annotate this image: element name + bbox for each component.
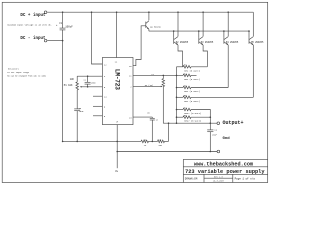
wire row1 left	[177, 66, 184, 68]
U1 left pin stubs	[93, 96, 102, 116]
svg-text:Resistors: Resistors	[8, 67, 20, 70]
svg-text:www.thebackshed.com: www.thebackshed.com	[194, 162, 253, 168]
svg-text:5K (1w): 5K (1w)	[145, 84, 153, 87]
wire ground line mid	[149, 141, 158, 143]
wire row3 left	[176, 87, 183, 89]
svg-text:10K: 10K	[70, 78, 75, 81]
capacitor C1	[56, 11, 73, 40]
wire Q4 emitter	[227, 45, 229, 88]
wire row6 right	[191, 116, 211, 118]
wire base bus	[149, 30, 249, 32]
svg-text:DC - input: DC - input	[20, 36, 46, 41]
wire row4 left	[176, 97, 183, 99]
U1 pin numbers	[104, 60, 132, 123]
svg-text:Q4 2N3055: Q4 2N3055	[226, 41, 239, 44]
svg-text:10uF: 10uF	[212, 134, 218, 137]
wire sense bus	[176, 67, 178, 124]
wire row4 right	[191, 96, 253, 98]
svg-text:0R1 (5 watt): 0R1 (5 watt)	[184, 78, 200, 81]
DC + input terminal	[20, 11, 46, 18]
capacitor C5	[133, 112, 158, 142]
svg-text:Maximum input voltage is 40 vo: Maximum input voltage is 40 volt dc.	[7, 23, 52, 26]
wire row5 right	[191, 110, 210, 124]
wire bottom rail	[117, 151, 217, 153]
resistor R3	[183, 64, 200, 73]
svg-text:0R47 (5 watt): 0R47 (5 watt)	[184, 112, 201, 115]
svg-text:0R1 (5 watt): 0R1 (5 watt)	[184, 69, 200, 72]
svg-text:100n: 100n	[91, 81, 97, 84]
capacitor C2	[84, 76, 97, 87]
sheet border frame	[2, 2, 268, 182]
transistor Q2 2N3055	[173, 11, 189, 45]
svg-text:Q1 BD139: Q1 BD139	[150, 26, 161, 29]
resistor R8	[183, 114, 201, 123]
resistor R4	[183, 72, 200, 81]
svg-text:Rev 1.0: Rev 1.0	[214, 175, 223, 178]
svg-text:DC + input: DC + input	[20, 13, 46, 18]
svg-text:R5 can be changed from 10K to: R5 can be changed from 10K to 100K	[7, 75, 46, 78]
svg-text:0R47 (5 watt): 0R47 (5 watt)	[184, 120, 201, 123]
potentiometer P1	[64, 76, 103, 90]
svg-text:100uF: 100uF	[65, 26, 73, 29]
wire ground line left	[62, 141, 141, 143]
wire output line	[163, 122, 217, 124]
svg-text:Gnd: Gnd	[223, 136, 231, 141]
svg-text:0R1 (5 watt): 0R1 (5 watt)	[184, 90, 200, 93]
svg-text:Q3 2N3055: Q3 2N3055	[201, 41, 214, 44]
svg-text:Output+: Output+	[223, 120, 244, 126]
wire row2 right	[191, 74, 197, 76]
svg-text:P1 10K: P1 10K	[64, 84, 73, 87]
op-amp regulator U1 LM-723	[102, 58, 133, 125]
wire pin12 riser	[116, 11, 118, 57]
terminal Output+	[217, 120, 244, 126]
terminal Gnd	[217, 136, 230, 153]
wire R10 to output riser	[165, 123, 169, 141]
wire row3 right	[191, 87, 228, 89]
svg-text:LM-723: LM-723	[114, 69, 121, 90]
DC - input terminal	[20, 36, 46, 42]
capacitor C4	[207, 123, 218, 151]
capacitor C3	[74, 90, 84, 142]
note maximum input voltage	[7, 23, 52, 26]
wire DC- to C1 node	[47, 40, 63, 42]
resistor R9	[141, 138, 149, 147]
svg-text:Q5 2N3055: Q5 2N3055	[251, 41, 264, 44]
note resistor range	[7, 67, 46, 77]
transistor Q1	[146, 11, 162, 31]
wire row1 right	[191, 66, 207, 68]
ground stub	[115, 151, 118, 173]
svg-text:26-3-2007: 26-3-2007	[213, 179, 225, 182]
wire row2 pin line	[133, 75, 183, 77]
transistor Q3 2N3055	[198, 11, 214, 45]
wire pin line C2 top	[77, 75, 102, 77]
resistor R7	[183, 106, 201, 115]
resistor R6	[183, 94, 200, 103]
wire DC- drop	[62, 41, 64, 142]
transistor Q4 2N3055	[223, 11, 239, 45]
wire Q3 emitter	[203, 45, 207, 67]
svg-text:DRAWN:GM: DRAWN:GM	[185, 177, 198, 180]
potentiometer P2	[133, 73, 165, 124]
svg-text:Q2 2N3055: Q2 2N3055	[176, 41, 189, 44]
wire row5 left	[176, 109, 183, 111]
wire Q2 emitter	[178, 45, 183, 67]
wire pin7 drop	[116, 125, 118, 152]
wire Q1 base path	[133, 26, 146, 66]
wire V+ riser	[91, 11, 103, 64]
resistor R10	[158, 138, 165, 147]
svg-text:1n: 1n	[156, 119, 158, 122]
transistor Q5 2N3055	[248, 12, 264, 45]
resistor R5	[183, 84, 200, 93]
wire Q5 emitter	[252, 45, 254, 97]
wire DC+ rail	[47, 11, 253, 13]
svg-text:Page 1 of n/a: Page 1 of n/a	[235, 176, 256, 180]
svg-text:10uF: 10uF	[79, 110, 85, 113]
title block	[183, 159, 267, 182]
svg-text:To set Input range: To set Input range	[7, 71, 29, 74]
svg-text:0R1 (5 watt): 0R1 (5 watt)	[184, 100, 200, 103]
svg-text:723 variable power supply: 723 variable power supply	[185, 169, 265, 175]
wire row6 left	[176, 116, 183, 118]
